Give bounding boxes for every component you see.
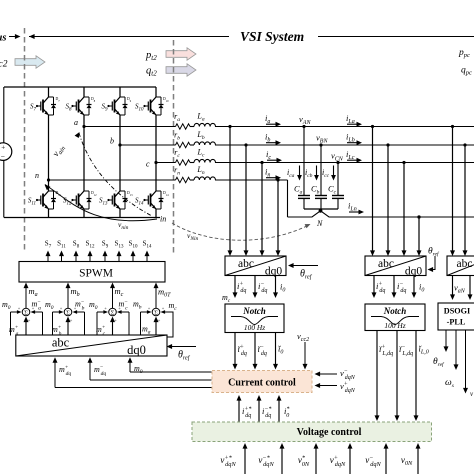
svg-text:b: b: [110, 137, 114, 146]
svg-text:Voltage control: Voltage control: [297, 427, 362, 438]
svg-text:dq0: dq0: [127, 343, 146, 357]
svg-text:+: +: [162, 306, 165, 311]
svg-text:+: +: [158, 318, 161, 323]
svg-text:abc: abc: [378, 258, 394, 270]
svg-text:+: +: [148, 306, 151, 311]
svg-text:DSOGI: DSOGI: [444, 307, 470, 316]
svg-text:Σ: Σ: [24, 309, 28, 316]
svg-text:+: +: [114, 318, 117, 323]
svg-text:+: +: [60, 306, 63, 311]
svg-text:SPWM: SPWM: [79, 268, 113, 280]
svg-text:c: c: [146, 160, 150, 169]
svg-text:Σ: Σ: [111, 309, 115, 316]
svg-text:Current control: Current control: [228, 378, 296, 389]
svg-text:dq0: dq0: [265, 266, 283, 278]
svg-text:abc: abc: [238, 258, 254, 270]
svg-text:Notch: Notch: [242, 306, 266, 316]
svg-text:VSI System: VSI System: [240, 29, 304, 44]
svg-text:N: N: [316, 219, 323, 228]
svg-text:−: −: [1, 152, 5, 161]
svg-text:a: a: [74, 118, 78, 127]
svg-text:c2: c2: [0, 60, 8, 70]
svg-text:abc: abc: [457, 258, 473, 270]
svg-text:Σ: Σ: [66, 309, 70, 316]
svg-text:100 Hz: 100 Hz: [244, 323, 265, 332]
svg-text:+: +: [1, 144, 5, 152]
svg-text:+: +: [28, 318, 31, 323]
svg-text:+: +: [104, 306, 107, 311]
svg-text:-PLL: -PLL: [447, 318, 466, 327]
svg-text:in: in: [160, 215, 166, 224]
svg-text:+: +: [70, 318, 73, 323]
svg-text:n: n: [35, 171, 39, 180]
svg-text:abc: abc: [52, 336, 70, 350]
svg-text:Σ: Σ: [154, 309, 158, 316]
svg-text:+: +: [18, 306, 21, 311]
svg-text:Notch: Notch: [383, 306, 407, 316]
svg-text:100 Hz: 100 Hz: [384, 321, 405, 330]
svg-text:us: us: [0, 33, 6, 44]
